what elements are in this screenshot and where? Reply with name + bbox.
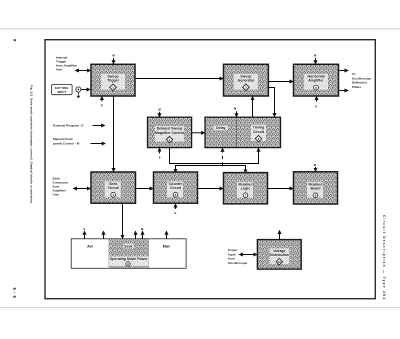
svg-text:Seek: Seek <box>124 245 132 249</box>
svg-text:Delay: Delay <box>216 126 225 130</box>
svg-text:Act: Act <box>87 245 93 249</box>
wire: Seek Circuit to Counter Circuit <box>136 188 153 190</box>
wire: M stub into Readout Board top <box>315 167 317 171</box>
wire: Voltage Distribution output up <box>279 231 281 239</box>
svg-text:panel) Control - M: panel) Control - M <box>53 142 80 146</box>
svg-text:E: E <box>174 211 176 215</box>
wire: Sweep Trigger to Sweep Generator <box>136 78 223 80</box>
svg-text:INPUT: INPUT <box>57 90 66 94</box>
block: Horizontal Amplifier <box>294 64 339 96</box>
svg-text:E: E <box>159 156 161 160</box>
wire: dashed stub from net B up into Delay bottom <box>222 148 224 165</box>
block: Delay / Timing Circuit <box>205 117 281 147</box>
wire: Horizontal Amplifier output upper to deflection plates <box>339 70 348 72</box>
svg-text:E: E <box>101 104 103 108</box>
svg-text:External Program - E: External Program - E <box>53 124 84 128</box>
label: Power Input from Oscilloscope <box>228 248 248 265</box>
svg-text:Trigger: Trigger <box>107 79 120 83</box>
svg-text:Unit: Unit <box>56 67 62 71</box>
wire: Seek Circuit bottom down to Operating Mode Power <box>122 204 124 239</box>
wire: connector to Sweep Trigger <box>81 89 90 91</box>
svg-text:Circuit: Circuit <box>108 186 120 190</box>
svg-text:Distribution: Distribution <box>269 253 289 257</box>
wire: DSMC bottom to Timing Circuit bottom (net A) <box>170 148 259 164</box>
svg-text:Unit: Unit <box>53 193 59 197</box>
wire: internal trigger double arrow into Sweep Trigger <box>76 70 91 72</box>
block: Operating Mode Power <box>71 239 186 268</box>
svg-text:Circuit: Circuit <box>253 130 265 134</box>
svg-text:Fig. 5-2. Seek mode operation: Fig. 5-2. Seek mode operation (automatic… <box>30 85 34 204</box>
legend: Manual (front panel) Control - M <box>53 137 105 146</box>
svg-text:Circuit: Circuit <box>170 186 182 190</box>
svg-text:Plates: Plates <box>352 85 361 89</box>
svg-text:E: E <box>315 104 317 108</box>
wire: OMP stub 1 up <box>84 231 86 238</box>
wire: M stub into Sweep Trigger top <box>113 58 115 64</box>
svg-text:Amplifier: Amplifier <box>308 79 324 83</box>
EXT TRIG INPUT box <box>52 84 73 94</box>
svg-text:Operating Mode Power: Operating Mode Power <box>110 257 149 261</box>
wire: DSMC to Delay block <box>192 132 204 134</box>
svg-text:E: E <box>83 227 85 231</box>
wire: E stub into Sweep Trigger bottom <box>101 97 103 102</box>
wire: E stub into DSMC bottom <box>159 148 161 153</box>
wire: power input double arrow into Voltage Distribution <box>240 254 257 256</box>
block: Delayed Sweep Magnifier Control <box>148 117 192 147</box>
svg-text:Oscilloscope: Oscilloscope <box>228 261 248 265</box>
svg-text:Board: Board <box>310 187 320 191</box>
wire: seek command double arrow <box>74 188 91 190</box>
label: To Oscilloscope Deflection Plates <box>352 72 372 89</box>
wire: Horizontal Amplifier output lower to deflection plates <box>339 90 348 92</box>
wire: Counter Circuit to Readout Logic <box>198 188 223 190</box>
label: Seek Command from Amplifier Unit <box>53 177 68 197</box>
BNC connector symbol <box>76 87 81 99</box>
wire: E stub into Counter Circuit bottom <box>175 204 177 209</box>
page top edge line <box>0 28 400 29</box>
block: Seek Circuit <box>91 172 136 203</box>
svg-text:10: 10 <box>278 260 282 264</box>
svg-text:5-5: 5-5 <box>12 288 17 299</box>
label: Internal Trigger from Amplifier Unit <box>56 55 78 71</box>
wire: OMP stub 5 up <box>166 231 168 238</box>
wire: Readout Logic to Readout Board <box>268 188 293 190</box>
svg-text:Manual (front: Manual (front <box>53 137 73 141</box>
block: Voltage Distribution <box>257 240 301 270</box>
wire: OMP stub 3 up <box>135 231 137 238</box>
block: Sweep Generator <box>224 64 269 96</box>
wire: Sweep Generator right-bottom down into Timing Circuit top <box>269 88 275 117</box>
block: Counter Circuit <box>154 172 198 203</box>
wire: OMP stub 4 up <box>142 231 144 238</box>
wire: M stub into Horizontal Amplifier top <box>315 58 317 64</box>
wire: net B horizontal feeding Counter and Readout Logic <box>176 166 246 173</box>
wire: M stub into DSMC top <box>159 112 161 117</box>
wire: Timing Circuit up into Sweep Generator bottom <box>252 97 254 117</box>
wire: Sweep Trigger bottom down to Seek Circuit top <box>113 96 115 171</box>
legend: External Program - E <box>53 124 105 128</box>
page bottom edge line <box>0 307 400 308</box>
figure frame <box>45 40 375 299</box>
wire: OMP stub 2 up <box>103 231 105 238</box>
block: Sweep Trigger <box>91 64 135 96</box>
block: Readout Logic <box>224 173 268 204</box>
svg-text:Generator: Generator <box>238 79 255 83</box>
wire: M stub into Delay/Timing top <box>236 111 238 116</box>
svg-text:Man: Man <box>163 245 170 249</box>
block: Readout Board <box>294 172 338 204</box>
svg-text:Logic: Logic <box>241 187 250 191</box>
wire: Sweep Generator to Horizontal Amplifier <box>269 81 293 83</box>
svg-text:Magnifier Control: Magnifier Control <box>155 131 184 135</box>
svg-text:Circuit Description — Type 281: Circuit Description — Type 281 <box>382 215 386 299</box>
copyright dot top-left <box>14 39 16 41</box>
wire: E stub into Horizontal Amplifier bottom <box>316 97 318 102</box>
